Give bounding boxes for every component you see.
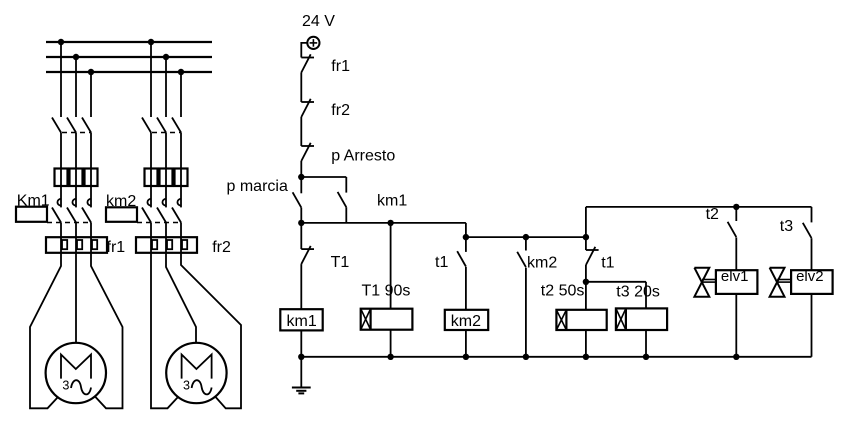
- svg-text:km2: km2: [451, 313, 481, 330]
- svg-text:T1: T1: [331, 254, 350, 271]
- svg-text:km1: km1: [287, 313, 317, 330]
- svg-text:t2 50s: t2 50s: [541, 283, 585, 300]
- svg-text:km2: km2: [527, 255, 557, 272]
- svg-text:t1: t1: [601, 255, 614, 272]
- svg-text:t2: t2: [706, 206, 719, 223]
- svg-text:3: 3: [183, 379, 190, 393]
- svg-text:fr2: fr2: [331, 102, 350, 119]
- svg-text:elv1: elv1: [721, 268, 749, 285]
- svg-text:elv2: elv2: [796, 268, 824, 285]
- svg-text:t1: t1: [435, 254, 448, 271]
- svg-text:T1 90s: T1 90s: [362, 283, 411, 300]
- svg-text:24 V: 24 V: [302, 13, 335, 30]
- svg-text:fr1: fr1: [107, 239, 126, 256]
- svg-text:Km1: Km1: [17, 193, 50, 210]
- svg-text:fr2: fr2: [212, 239, 231, 256]
- svg-text:3: 3: [62, 379, 69, 393]
- svg-text:km2: km2: [106, 193, 136, 210]
- svg-text:t3: t3: [780, 218, 793, 235]
- svg-text:fr1: fr1: [331, 58, 350, 75]
- svg-text:p Arresto: p Arresto: [331, 148, 395, 165]
- svg-text:p marcia: p marcia: [227, 178, 288, 195]
- svg-text:t3 20s: t3 20s: [616, 283, 660, 300]
- svg-text:km1: km1: [377, 193, 407, 210]
